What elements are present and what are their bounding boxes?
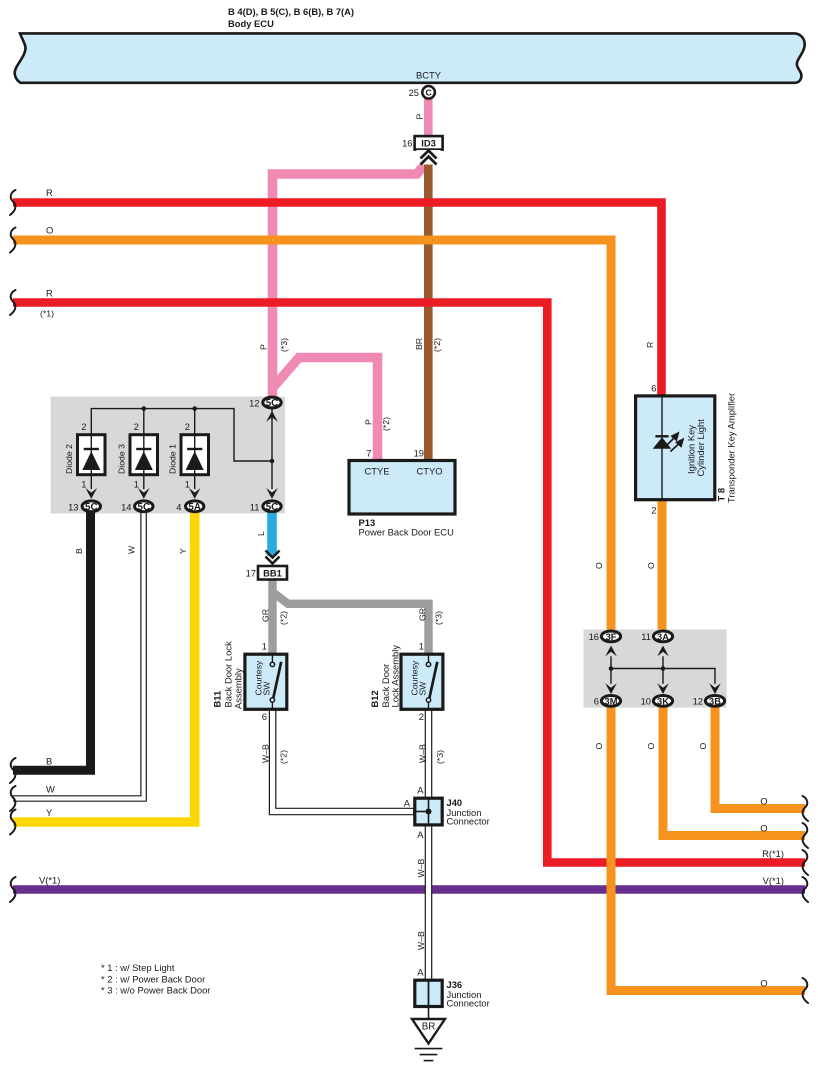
wire BR from ID3 to P13 pin 19 [424, 152, 433, 461]
diode 1 [181, 435, 209, 475]
svg-text:GR: GR [261, 609, 271, 622]
svg-text:17: 17 [246, 568, 256, 579]
wire O from 3K to right exit [663, 706, 805, 836]
svg-text:W–B: W–B [416, 931, 426, 950]
svg-text:SW: SW [418, 681, 428, 696]
svg-text:7: 7 [366, 448, 371, 459]
svg-text:Transponder Key Amplifier: Transponder Key Amplifier [726, 393, 737, 503]
svg-text:2: 2 [419, 711, 424, 722]
pin 25 circle C [422, 86, 435, 99]
arrow down into 3K [657, 683, 669, 694]
svg-text:CTYO: CTYO [416, 466, 442, 477]
svg-text:W: W [127, 545, 137, 554]
wire GR branch to B12 pin 1 [273, 592, 429, 655]
svg-text:16: 16 [589, 631, 599, 642]
wire W from pin 14 to left exit [13, 510, 144, 799]
svg-text:ID3: ID3 [421, 138, 436, 149]
wire GR from BB1 to B11 pin 1 [268, 579, 276, 655]
svg-text:19: 19 [414, 448, 424, 459]
ground [428, 1007, 430, 1019]
svg-text:5C: 5C [138, 502, 151, 513]
P13 Power Back Door ECU [349, 461, 455, 515]
svg-text:2: 2 [134, 421, 139, 432]
svg-text:O: O [594, 562, 604, 569]
svg-text:2: 2 [185, 421, 190, 432]
svg-text:A: A [417, 967, 424, 978]
svg-text:(*3): (*3) [435, 750, 445, 764]
left break B [10, 758, 16, 783]
right break O 3K [803, 823, 809, 848]
svg-text:O: O [46, 225, 53, 236]
svg-text:5C: 5C [266, 398, 279, 409]
left break O [10, 228, 16, 253]
svg-text:P: P [364, 419, 374, 425]
svg-text:C: C [425, 88, 432, 98]
terminal 13 5C [82, 501, 100, 512]
svg-text:L: L [256, 531, 266, 536]
svg-text:(*3): (*3) [279, 338, 289, 352]
right break R1 [803, 850, 809, 875]
svg-text:Connector: Connector [447, 998, 490, 1009]
svg-text:P: P [415, 114, 425, 120]
terminal 12 3B [705, 696, 724, 707]
svg-text:5C: 5C [85, 502, 98, 513]
svg-text:W: W [46, 784, 55, 795]
connector BB1 [258, 566, 287, 580]
svg-text:1: 1 [262, 641, 267, 652]
svg-text:* 1 : w/ Step Light: * 1 : w/ Step Light [101, 962, 175, 973]
svg-text:W–B: W–B [418, 744, 428, 763]
Body ECU connector bar [15, 33, 805, 82]
svg-text:1: 1 [134, 479, 139, 490]
svg-text:11: 11 [250, 501, 260, 512]
svg-text:1: 1 [81, 479, 86, 490]
svg-text:BR: BR [414, 338, 424, 350]
arrow down into 3B [709, 683, 721, 694]
svg-text:2: 2 [81, 421, 86, 432]
svg-text:BB1: BB1 [263, 568, 282, 579]
svg-text:3F: 3F [606, 632, 617, 642]
svg-text:O: O [760, 796, 767, 807]
wire pink branch to P13 pin 7 [273, 358, 378, 462]
svg-text:Diode 2: Diode 2 [64, 444, 74, 474]
svg-text:* 2 : w/ Power Back Door: * 2 : w/ Power Back Door [101, 974, 205, 985]
svg-text:BR: BR [422, 1022, 436, 1033]
svg-text:14: 14 [121, 501, 131, 512]
svg-text:3M: 3M [605, 697, 618, 707]
left break R1 [10, 290, 16, 315]
svg-text:O: O [698, 743, 708, 750]
wire O from 3B to right exit [715, 706, 805, 809]
terminal 10 3K [653, 696, 672, 707]
left break W [10, 786, 16, 811]
svg-text:11: 11 [641, 631, 651, 642]
svg-text:1: 1 [419, 641, 424, 652]
terminal 12 5C [263, 397, 281, 408]
wire V (*1) across page [13, 885, 805, 894]
svg-text:V(*1): V(*1) [763, 875, 784, 886]
svg-text:1: 1 [185, 479, 190, 490]
svg-text:3A: 3A [657, 632, 669, 642]
svg-text:Body ECU: Body ECU [228, 18, 274, 29]
svg-text:R(*1): R(*1) [762, 848, 784, 859]
svg-text:12: 12 [249, 398, 259, 409]
svg-text:4: 4 [176, 501, 181, 512]
diode block bus wiring [91, 409, 272, 490]
gray junction block [584, 629, 727, 707]
J36 junction connector [415, 980, 442, 1006]
right break O 3B [803, 796, 809, 821]
svg-text:O: O [646, 562, 656, 569]
svg-text:6: 6 [651, 383, 656, 394]
wire O from T8 pin 2 to node 3A [658, 500, 667, 631]
svg-text:B 4(D), B 5(C), B 6(B), B 7(A): B 4(D), B 5(C), B 6(B), B 7(A) [228, 6, 354, 17]
wire P from pin 25 to ID3 [424, 98, 433, 136]
svg-text:GR: GR [418, 608, 428, 621]
svg-text:V(*1): V(*1) [39, 875, 60, 886]
svg-text:(*1): (*1) [40, 309, 54, 319]
svg-text:Diode 3: Diode 3 [117, 444, 127, 474]
terminal 16 3F [601, 631, 620, 642]
wire R (*1) to right exit [13, 303, 805, 863]
svg-text:25: 25 [409, 87, 419, 98]
terminal 11 5C [263, 501, 281, 512]
svg-text:6: 6 [594, 696, 599, 707]
svg-text:* 3 : w/o Power Back Door: * 3 : w/o Power Back Door [101, 985, 210, 996]
arrow up into 3A [657, 646, 669, 657]
gray diode block [51, 397, 286, 514]
svg-text:(*2): (*2) [279, 750, 289, 764]
svg-text:Y: Y [46, 807, 53, 818]
svg-text:O: O [760, 978, 767, 989]
svg-text:SW: SW [262, 681, 272, 696]
arrow up into 3F [605, 646, 617, 657]
svg-text:A: A [404, 798, 411, 809]
svg-text:Cylinder Light: Cylinder Light [695, 419, 706, 477]
left break V [10, 877, 16, 902]
svg-text:P: P [259, 344, 269, 350]
terminal 11 3A [653, 631, 672, 642]
diode 2 [78, 435, 106, 475]
terminal 14 5C [135, 501, 153, 512]
wire W-B from B11 pin 6 to J40 [273, 709, 415, 812]
svg-text:B11: B11 [212, 691, 223, 708]
svg-text:5C: 5C [266, 502, 279, 513]
svg-text:Power Back Door ECU: Power Back Door ECU [359, 527, 455, 538]
svg-text:3K: 3K [657, 697, 669, 707]
left break R [10, 190, 16, 215]
svg-text:B: B [74, 548, 84, 554]
svg-text:Lock Assembly: Lock Assembly [390, 645, 401, 708]
svg-text:A: A [417, 785, 424, 796]
svg-text:R: R [46, 187, 53, 198]
J40 junction connector [415, 798, 442, 825]
svg-text:13: 13 [68, 501, 78, 512]
svg-text:A: A [417, 829, 424, 840]
svg-text:(*2): (*2) [279, 611, 289, 625]
LED symbol [655, 435, 668, 437]
arrow up below node 12 [266, 411, 278, 422]
svg-text:10: 10 [641, 696, 651, 707]
svg-text:R: R [46, 288, 53, 299]
terminal 4 5A [186, 501, 204, 512]
svg-text:Connector: Connector [447, 816, 490, 827]
svg-text:B: B [46, 756, 52, 767]
junction block internal wiring [611, 656, 715, 684]
svg-text:W–B: W–B [416, 858, 426, 877]
svg-text:W–B: W–B [261, 744, 271, 763]
B11 Back Door Lock Assembly [245, 654, 287, 709]
wire R top to T8 pin 6 [13, 203, 662, 397]
wire pink from ID3 down-left to node 12 [273, 161, 428, 399]
wire L from pin 11 to BB1 [267, 510, 277, 556]
wire Y from pin 4 to left exit [13, 510, 195, 822]
svg-text:(*2): (*2) [432, 338, 442, 352]
chevrons above BB1 [261, 557, 284, 567]
wire B from pin 13 to left exit [13, 510, 91, 770]
svg-text:O: O [760, 823, 767, 834]
chevrons below ID3 [417, 150, 441, 165]
svg-text:BCTY: BCTY [416, 70, 442, 81]
svg-text:3B: 3B [709, 697, 721, 707]
wire O top to node 3F [13, 240, 611, 631]
svg-text:B12: B12 [369, 690, 380, 707]
svg-text:CTYE: CTYE [364, 466, 389, 477]
right break O 3M [803, 978, 809, 1003]
arrow down into 11 [266, 488, 278, 499]
svg-text:(*2): (*2) [381, 417, 391, 431]
svg-text:O: O [594, 743, 604, 750]
svg-text:Diode 1: Diode 1 [168, 444, 178, 474]
svg-text:Assembly: Assembly [233, 668, 244, 709]
arrow down into 3M [605, 683, 617, 694]
diode 3 [130, 435, 158, 475]
terminal 6 3M [601, 696, 620, 707]
svg-text:12: 12 [693, 696, 703, 707]
wire O from 3M to bottom right exit [611, 706, 805, 991]
right break V [803, 877, 809, 902]
svg-text:R: R [645, 342, 655, 348]
left break Y [10, 810, 16, 835]
B12 Back Door Lock Assembly [401, 654, 443, 709]
svg-text:16: 16 [402, 138, 412, 149]
connector ID3 [415, 136, 443, 150]
svg-text:(*3): (*3) [434, 611, 444, 625]
svg-text:5A: 5A [188, 502, 201, 513]
svg-text:2: 2 [651, 505, 656, 516]
wire W-B from B12 pin 2 through J40 to J36 [425, 709, 433, 981]
svg-text:Y: Y [178, 548, 188, 554]
svg-text:O: O [646, 743, 656, 750]
svg-text:6: 6 [262, 711, 267, 722]
T8 Transponder Key Amplifier [636, 396, 715, 500]
